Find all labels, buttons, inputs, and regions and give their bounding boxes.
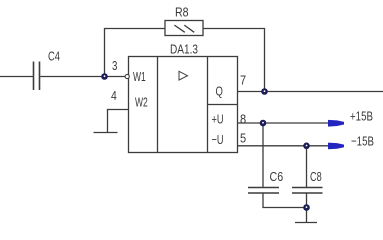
svg-text:W1: W1 [133, 70, 146, 84]
svg-text:5: 5 [240, 131, 246, 146]
svg-text:R8: R8 [175, 4, 189, 19]
svg-text:W2: W2 [135, 96, 148, 110]
svg-text:3: 3 [112, 60, 117, 74]
svg-text:DA1.3: DA1.3 [170, 42, 198, 57]
svg-text:4: 4 [111, 89, 117, 103]
svg-text:8: 8 [240, 111, 246, 126]
svg-text:C6: C6 [270, 169, 284, 184]
svg-text:7: 7 [240, 73, 246, 88]
svg-text:+U: +U [212, 113, 224, 127]
svg-text:Q: Q [216, 85, 224, 99]
svg-text:C8: C8 [310, 171, 322, 185]
svg-text:C4: C4 [48, 50, 60, 64]
svg-text:−15В: −15В [351, 135, 374, 149]
svg-text:+15В: +15В [350, 110, 373, 124]
svg-text:−U: −U [212, 134, 224, 148]
